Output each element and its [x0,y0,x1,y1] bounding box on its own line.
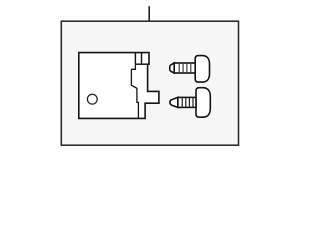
screw 2 thread line a [181,97,183,107]
screw 2 thread line d [192,97,194,107]
screw 1 tip [170,63,175,73]
screw 2 thread line b [185,97,187,107]
leader line [148,6,150,21]
bracket tab bottom line [135,63,149,65]
bracket hole [87,94,97,104]
screw 2 thread line c [188,97,190,107]
screw 1 head [195,56,209,83]
screw 1 thread line b [182,63,184,73]
enclosure box [61,21,238,145]
screw 1 shaft [174,63,195,73]
bracket part outline [79,53,159,119]
screw 1 thread line c [186,63,188,73]
screw 2 head [196,88,210,118]
bracket inner step line [131,64,138,118]
screw 2 shaft [178,97,196,107]
screw 1 thread line d [190,63,192,73]
bracket tab divider line 2 [141,53,143,65]
bracket tab divider line 1 [134,53,136,65]
screw 2 tip [170,97,178,107]
screw 1 thread line a [178,63,180,73]
